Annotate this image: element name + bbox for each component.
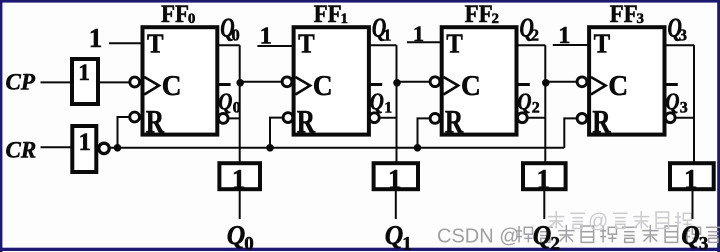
junction dot riser0 xyxy=(114,144,122,152)
svg-text:Q: Q xyxy=(681,220,700,250)
wire T input stage1 xyxy=(257,45,293,47)
svg-text:Q: Q xyxy=(665,88,679,116)
bubble C input FF2 xyxy=(430,77,440,87)
svg-text:R: R xyxy=(592,105,611,141)
pin C of FF2 with edge triangle xyxy=(444,77,459,95)
wire T input stage0 xyxy=(109,42,143,44)
wire Q3 vertical xyxy=(693,45,695,163)
svg-text:1: 1 xyxy=(402,233,412,252)
svg-text:C: C xyxy=(162,70,182,102)
junction dot riser1 xyxy=(266,144,274,152)
bubble Qbar output FF3 xyxy=(665,113,675,123)
wire T input stage3 xyxy=(553,44,589,46)
bubble C input FF1 xyxy=(282,77,292,87)
wire output stage1 down xyxy=(395,189,397,219)
svg-text:0: 0 xyxy=(232,25,240,44)
svg-text:R: R xyxy=(445,105,464,141)
flip-flop FF2 box xyxy=(442,27,517,134)
svg-text:Q: Q xyxy=(370,88,384,116)
wire Qbar1 stub xyxy=(374,117,396,119)
wire output stage3 down xyxy=(692,189,694,219)
svg-text:2: 2 xyxy=(492,11,500,27)
flip-flop FF3 box xyxy=(589,27,664,134)
wire CP lead xyxy=(41,81,72,83)
svg-text:1: 1 xyxy=(232,164,246,194)
bubble R input FF3 xyxy=(577,114,587,124)
wire Qbar2 stub xyxy=(522,117,545,119)
buffer 1 (CP) xyxy=(72,59,98,104)
svg-text:Q: Q xyxy=(385,220,404,250)
wire Qbar3 stub xyxy=(670,117,694,119)
svg-text:1: 1 xyxy=(383,25,391,44)
label Qbar1 xyxy=(370,83,383,86)
wire Q0 vertical xyxy=(239,45,241,163)
svg-text:3: 3 xyxy=(679,25,687,44)
flip-flop FF1 box xyxy=(294,27,369,134)
junction dot Q2/C xyxy=(542,79,550,87)
svg-text:C: C xyxy=(608,70,628,102)
svg-text:R: R xyxy=(146,105,165,141)
svg-text:Q: Q xyxy=(517,88,531,116)
svg-text:1: 1 xyxy=(413,21,424,46)
wire Q2 output top xyxy=(517,44,546,46)
wire R riser stage3 xyxy=(563,118,565,147)
wire CR bus xyxy=(109,147,564,149)
wire output stage0 down xyxy=(239,189,241,219)
wire Qbar0 stub xyxy=(223,117,240,119)
wire output stage2 down xyxy=(543,189,545,219)
svg-text:1: 1 xyxy=(684,164,698,194)
svg-text:3: 3 xyxy=(699,233,709,252)
bubble Qbar output FF0 xyxy=(218,114,228,124)
svg-text:1: 1 xyxy=(260,23,272,50)
svg-text:1: 1 xyxy=(537,164,551,194)
svg-text:Q: Q xyxy=(533,220,552,250)
svg-text:2: 2 xyxy=(531,25,539,44)
svg-text:R: R xyxy=(297,105,316,141)
svg-text:0: 0 xyxy=(244,233,254,252)
wire Q0 to C of FF1 xyxy=(240,81,287,83)
buffer 1 (output stage 3) xyxy=(670,163,714,189)
svg-text:0: 0 xyxy=(233,100,241,117)
svg-text:1: 1 xyxy=(78,60,90,86)
buffer 1 (output stage 1) xyxy=(374,163,418,189)
wire R riser stage0 xyxy=(117,117,119,148)
svg-text:C: C xyxy=(461,70,481,102)
junction dot riser2 xyxy=(414,144,422,152)
svg-text:T: T xyxy=(298,29,315,59)
wire R riser stage2 xyxy=(417,118,419,147)
wire Q1 vertical xyxy=(396,45,398,163)
svg-text:CSDN @: CSDN @ xyxy=(437,225,520,247)
bubble Qbar output FF2 xyxy=(517,113,527,123)
svg-text:1: 1 xyxy=(558,22,570,49)
svg-text:T: T xyxy=(147,29,164,59)
wire T input stage2 xyxy=(407,41,442,43)
bubble C input FF0 xyxy=(130,77,140,87)
label Qbar0 xyxy=(218,83,231,86)
svg-text:FF: FF xyxy=(610,1,638,28)
wire CP buffer to C xyxy=(99,81,135,83)
svg-text:CR: CR xyxy=(6,138,37,163)
wire Q1 output top xyxy=(369,44,397,46)
svg-text:Q: Q xyxy=(227,220,246,250)
svg-text:T: T xyxy=(594,29,611,59)
svg-text:0: 0 xyxy=(188,11,196,27)
svg-text:T: T xyxy=(446,29,463,59)
junction dot Q0/C xyxy=(236,79,244,87)
svg-text:FF: FF xyxy=(161,1,189,28)
border frame xyxy=(0,0,720,3)
svg-text:2: 2 xyxy=(532,100,540,117)
svg-text:1: 1 xyxy=(89,23,103,53)
label Qbar3 xyxy=(665,83,678,86)
wire Q0 output top xyxy=(217,44,239,46)
svg-text:FF: FF xyxy=(314,1,342,28)
bubble CR output xyxy=(99,143,109,153)
wire Q2 to C of FF3 xyxy=(545,81,582,83)
bubble R input FF1 xyxy=(283,113,293,123)
svg-text:1: 1 xyxy=(384,100,392,117)
svg-text:Q: Q xyxy=(218,88,232,116)
wire R riser stage1 xyxy=(269,118,271,148)
svg-text:CP: CP xyxy=(6,70,36,95)
svg-text:1: 1 xyxy=(79,129,92,156)
bubble Qbar output FF1 xyxy=(369,113,379,123)
svg-text:3: 3 xyxy=(637,11,645,27)
bubble R input FF2 xyxy=(430,114,440,124)
svg-text:2: 2 xyxy=(550,233,560,252)
wire Q3 output top xyxy=(665,44,695,46)
wire CR lead xyxy=(41,146,73,148)
flip-flop FF0 box xyxy=(143,27,218,134)
svg-text:1: 1 xyxy=(341,11,349,27)
svg-text:1: 1 xyxy=(388,164,402,194)
svg-text:C: C xyxy=(313,70,333,102)
buffer 1 (CR) with inverting output xyxy=(72,126,96,172)
watermark zhihu xyxy=(548,211,692,233)
wire Q1 to C of FF2 xyxy=(397,81,436,83)
bubble C input FF3 xyxy=(577,77,587,87)
bubble R input FF0 xyxy=(130,112,140,122)
pin C of FF1 with edge triangle xyxy=(295,77,310,95)
junction dot Q1/C xyxy=(393,79,401,87)
wire Q2 vertical xyxy=(544,45,546,163)
watermark CSDN xyxy=(437,225,720,247)
svg-text:@: @ xyxy=(588,211,608,233)
label Qbar2 xyxy=(517,83,530,86)
svg-text:FF: FF xyxy=(465,1,493,28)
svg-text:3: 3 xyxy=(680,100,688,117)
buffer 1 (output stage 0) xyxy=(219,163,260,189)
pin C of FF3 with edge triangle xyxy=(591,77,606,95)
buffer 1 (output stage 2) xyxy=(523,163,566,189)
pin C of FF0 with edge triangle xyxy=(144,77,159,95)
